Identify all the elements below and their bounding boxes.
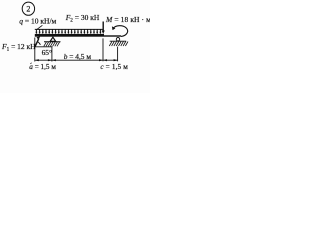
- extension line under support 1: [51, 46, 53, 61]
- accent over a: [30, 63, 31, 64]
- dim arrowheads b: [52, 59, 56, 61]
- extension line at beam left end: [34, 38, 36, 62]
- svg-text:c = 1,5 м: c = 1,5 м: [100, 63, 128, 71]
- svg-text:M = 18 кН · м: M = 18 кН · м: [105, 15, 150, 24]
- svg-text:b = 4,5 м: b = 4,5 м: [64, 52, 92, 61]
- moment M arc arrow: [113, 26, 128, 37]
- beam (thick left part under load): [35, 34, 104, 37]
- 65 deg angle arc: [37, 42, 40, 45]
- force F1 arrow (65 degrees): [35, 36, 40, 47]
- dim arrowheads a: [35, 59, 39, 61]
- leader line from q label to load: [37, 25, 43, 29]
- extension line under support 2: [117, 47, 119, 62]
- svg-text:2: 2: [26, 5, 30, 14]
- extension line under F2: [102, 38, 104, 61]
- svg-text:65°: 65°: [42, 48, 52, 57]
- problem number circle 2: [22, 2, 34, 15]
- support 1 ground line: [44, 41, 61, 43]
- dim arrowheads c: [103, 59, 107, 61]
- svg-text:q = 10 кН/м: q = 10 кН/м: [19, 16, 56, 25]
- beam (thin right part): [104, 35, 121, 36]
- support 2 hatching: [109, 42, 128, 47]
- support 2: roller circle: [116, 38, 119, 41]
- force F2 arrow: [102, 22, 105, 34]
- support 1 hatching: [44, 42, 60, 46]
- distributed load q top line: [35, 28, 103, 30]
- distributed load arrowheads row: [35, 32, 101, 34]
- support 1: pin triangle: [50, 37, 56, 41]
- svg-text:F1 = 12 кН: F1 = 12 кН: [1, 42, 36, 53]
- support 2 ground line: [110, 40, 127, 42]
- svg-text:F2 = 30 кН: F2 = 30 кН: [65, 13, 100, 24]
- dimension line: [35, 59, 118, 61]
- distributed load arrows: [36, 29, 100, 33]
- svg-text:a = 1,5 м: a = 1,5 м: [29, 63, 56, 71]
- 65 deg reference line: [35, 46, 52, 48]
